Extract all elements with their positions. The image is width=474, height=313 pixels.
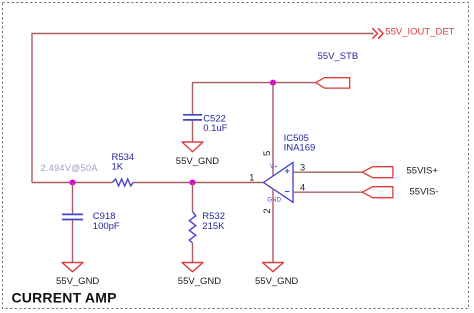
svg-text:55V_GND: 55V_GND: [255, 276, 298, 287]
junction dot at C918 branch: [70, 180, 76, 186]
svg-text:55V_GND: 55V_GND: [56, 276, 99, 287]
wire net 55V_STB: C522 top corner to connector: [193, 83, 316, 114]
output arrow 55V_IOUT_DET: [372, 28, 383, 38]
svg-text:55V_IOUT_DET: 55V_IOUT_DET: [385, 27, 454, 38]
svg-text:C918: C918: [93, 211, 116, 222]
wire: C522 to ground: [192, 121, 194, 142]
wire: main horizontal, R534 to op-amp pin 1: [133, 182, 264, 184]
wire: C918 branch upper: [72, 183, 74, 214]
ground 55V_GND (below C918): [62, 263, 83, 272]
ground 55V_GND (below op-amp pin 2): [263, 263, 284, 272]
svg-text:0.1uF: 0.1uF: [203, 123, 227, 134]
capacitor C918: [62, 214, 83, 219]
wire: pin 4 to 55VIS- connector: [293, 191, 362, 193]
svg-text:1: 1: [249, 172, 254, 182]
svg-text:55VIS-: 55VIS-: [410, 186, 439, 197]
ground 55V_GND (below C522): [182, 142, 203, 152]
svg-text:1K: 1K: [112, 161, 124, 172]
wire: R532 branch lower: [192, 243, 194, 263]
svg-text:55V_GND: 55V_GND: [176, 156, 219, 167]
svg-text:4: 4: [300, 182, 305, 192]
svg-text:CURRENT AMP: CURRENT AMP: [12, 290, 117, 306]
svg-text:V+: V+: [270, 163, 278, 170]
op-amp + input mark: [285, 169, 289, 173]
op-amp U IC505 INA169: [264, 163, 294, 203]
ground 55V_GND (below R532): [182, 263, 203, 272]
svg-text:215K: 215K: [202, 221, 225, 232]
junction dot at R532 branch: [190, 180, 196, 186]
svg-text:2.494V@50A: 2.494V@50A: [41, 163, 98, 173]
svg-text:5: 5: [262, 151, 273, 156]
capacitor C522: [183, 115, 202, 120]
op-amp - input mark: [285, 191, 289, 193]
svg-text:55V_STB: 55V_STB: [318, 51, 359, 62]
port connector 55V_STB: [316, 78, 350, 88]
resistor R532: [189, 211, 196, 243]
resistor R534: [112, 179, 133, 186]
svg-text:GND: GND: [267, 196, 281, 203]
svg-text:100pF: 100pF: [93, 221, 120, 232]
port connector 55VIS-: [362, 187, 393, 198]
wire net 55V_IOUT_DET: top horizontal + left vertical: [32, 34, 374, 183]
wire: op-amp pin 2 to ground: [272, 189, 274, 263]
svg-text:INA169: INA169: [284, 143, 316, 154]
wire: main horizontal, left of R534: [32, 182, 112, 184]
wire: pin 3 to 55VIS+ connector: [293, 171, 362, 173]
svg-text:R532: R532: [202, 211, 225, 222]
svg-text:55VIS+: 55VIS+: [407, 166, 439, 177]
junction dot at pin 5 riser: [270, 80, 276, 86]
port connector 55VIS+: [362, 167, 393, 178]
wire: R532 branch upper: [192, 183, 194, 212]
wire: op-amp pin 5 riser: [272, 83, 274, 177]
svg-text:2: 2: [262, 208, 273, 213]
wire: C918 branch lower: [72, 220, 74, 262]
svg-text:55V_GND: 55V_GND: [178, 276, 221, 287]
svg-text:3: 3: [300, 162, 305, 172]
